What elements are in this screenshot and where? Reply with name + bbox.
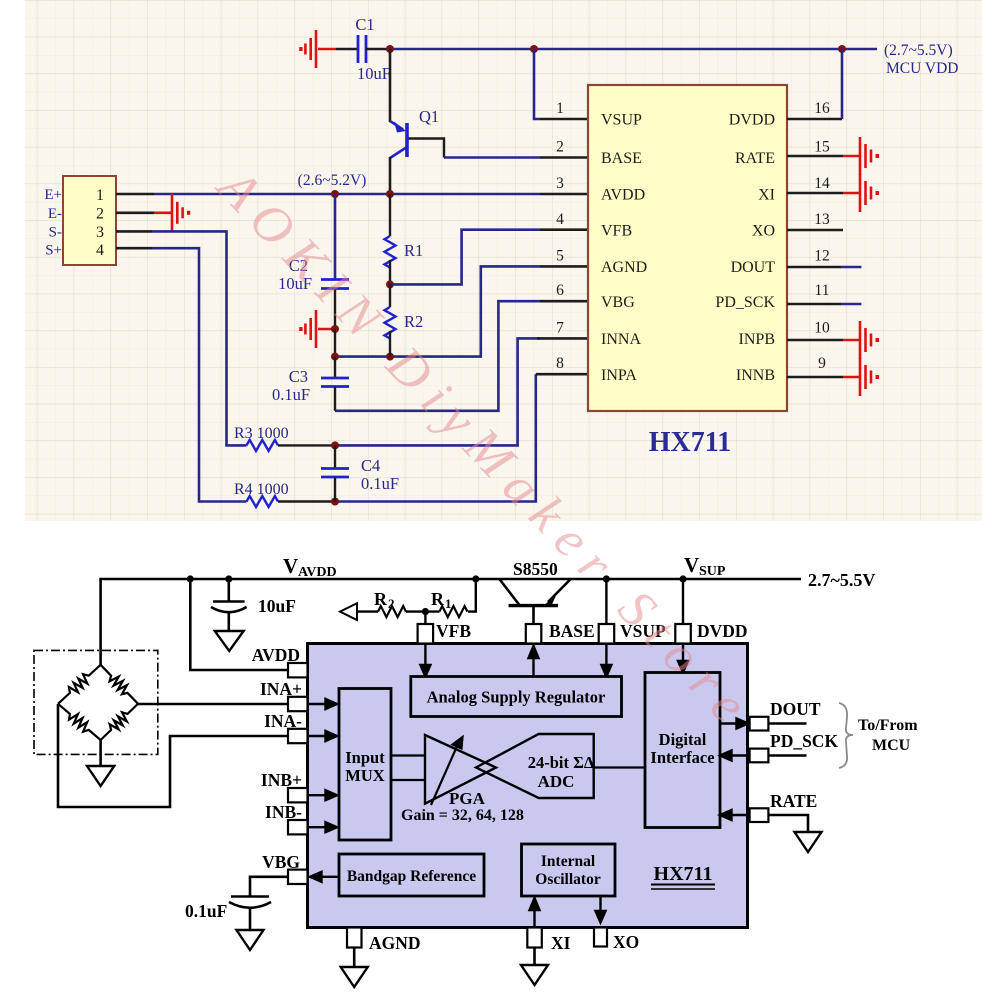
svg-text:HX711: HX711 [654, 863, 713, 885]
schematic grid background [25, 0, 982, 521]
load cell dashed box [34, 650, 158, 754]
arrow BASE from ASR [529, 646, 539, 677]
wire MUX to PGA upper [391, 754, 425, 756]
transistor S8550 [499, 579, 570, 625]
connector pin3 stub [116, 230, 152, 233]
svg-text:VFB: VFB [436, 621, 471, 641]
svg-text:Input: Input [345, 748, 385, 767]
wire V_AVDD rail [99, 578, 801, 581]
junction rail VSUP [603, 575, 610, 582]
svg-text:INB-: INB- [265, 802, 302, 822]
arrow RATE in [720, 810, 748, 820]
wire VSUP drop [605, 579, 607, 625]
capacitor C1 [358, 35, 366, 63]
IC right pin numbers [814, 100, 830, 372]
resistor R1 bottom [439, 606, 467, 617]
arrow INA- into MUX [308, 731, 338, 741]
pin 15 stub [787, 155, 843, 158]
svg-text:7: 7 [556, 320, 564, 337]
svg-text:R: R [374, 589, 388, 609]
svg-text:PD_SCK: PD_SCK [715, 294, 775, 311]
junction ground node [331, 325, 339, 333]
PGA triangle [425, 735, 496, 804]
arrow INA+ into MUX [308, 699, 338, 709]
connector pin4 stub [116, 247, 152, 250]
svg-text:Oscillator: Oscillator [535, 871, 601, 888]
ADC pentagon [476, 734, 594, 798]
bridge arm bottom-left [58, 704, 101, 740]
pin 7 stub [537, 337, 588, 340]
svg-text:AVDD: AVDD [601, 187, 645, 204]
pin 5 stub [540, 265, 588, 268]
junction AGND row left [331, 353, 339, 361]
svg-text:SUP: SUP [699, 564, 726, 579]
svg-text:3: 3 [96, 224, 104, 241]
svg-text:R1: R1 [404, 241, 423, 260]
svg-text:24-bit ΣΔ: 24-bit ΣΔ [528, 753, 595, 772]
svg-text:DVDD: DVDD [729, 112, 775, 129]
wire R1 to rail [468, 579, 476, 612]
label V_SUP [684, 553, 726, 579]
ground at XI [843, 174, 879, 212]
pin box PD_SCK [750, 749, 769, 763]
pin box DVDD [675, 624, 691, 644]
wire PD_SCK right [768, 754, 806, 757]
svg-text:MCU VDD: MCU VDD [886, 60, 959, 77]
wire AVDD net [154, 193, 540, 196]
ground at C1 [299, 30, 336, 68]
capacitor 0.1uF bottom [229, 897, 271, 931]
wire PD_SCK [842, 303, 862, 306]
svg-text:C4: C4 [361, 456, 380, 475]
wire R2 to R1 [406, 610, 439, 612]
svg-text:10uF: 10uF [258, 596, 296, 616]
svg-text:S-: S- [49, 225, 62, 241]
svg-text:C1: C1 [355, 15, 374, 34]
box Digital Interface [645, 673, 720, 828]
junction AGND row R2 [386, 353, 394, 361]
svg-text:6: 6 [556, 282, 564, 299]
wire S- to R3 [152, 231, 247, 445]
pin 4 stub [540, 228, 588, 231]
svg-text:AVDD: AVDD [252, 645, 300, 665]
svg-text:15: 15 [814, 139, 830, 156]
svg-text:BASE: BASE [549, 621, 595, 641]
svg-text:2.7~5.5V: 2.7~5.5V [808, 570, 875, 590]
arrow INB+ into MUX [308, 790, 338, 800]
ground of AGND [341, 967, 368, 987]
svg-text:ADC: ADC [538, 772, 575, 791]
pin box RATE [750, 808, 769, 822]
pin 12 stub [787, 266, 842, 269]
box Internal Oscillator [522, 844, 616, 896]
pin 11 stub [787, 303, 842, 306]
capacitor 10uF [211, 579, 247, 631]
wire Q1 emitter from rail [389, 49, 392, 122]
junction R3 C4 [331, 441, 339, 449]
arrow INB- into MUX [308, 822, 338, 832]
connector J1 [63, 176, 116, 265]
wire base net to pin 2 [444, 156, 540, 159]
svg-text:INA-: INA- [264, 711, 302, 731]
svg-text:1: 1 [556, 100, 564, 117]
wire R4 to junction [278, 500, 335, 502]
svg-text:INNB: INNB [736, 367, 775, 384]
wire DVDD to rail [841, 49, 844, 119]
pin 8 stub [536, 373, 588, 376]
wire S+ to R4 [152, 248, 247, 501]
ground at E- [154, 194, 190, 232]
svg-text:XO: XO [613, 932, 639, 952]
wire bridge excitation [99, 579, 102, 666]
arrow XI into oscillator [530, 898, 540, 928]
svg-text:E-: E- [48, 206, 62, 222]
svg-text:13: 13 [814, 211, 830, 228]
pin 3 stub AVDD [540, 193, 588, 196]
capacitor C2 [321, 194, 349, 329]
svg-text:Internal: Internal [541, 853, 596, 870]
svg-text:INB+: INB+ [261, 770, 302, 790]
labels E+ E- S- S+ [44, 187, 62, 259]
svg-text:DOUT: DOUT [770, 699, 821, 719]
wire ADC to DI [594, 766, 645, 768]
svg-text:1: 1 [445, 596, 452, 611]
junction rail DVDD [679, 575, 686, 582]
svg-text:AGND: AGND [369, 933, 421, 953]
wire AGND down [353, 948, 356, 968]
wire DOUT right [768, 722, 806, 725]
wire R4 node to INPA [335, 374, 536, 501]
pin box VFB [418, 624, 434, 644]
resistor R2 [385, 284, 396, 356]
svg-text:Digital: Digital [659, 730, 707, 749]
svg-text:Interface: Interface [650, 748, 714, 767]
svg-text:3: 3 [556, 175, 564, 192]
svg-text:10uF: 10uF [357, 64, 391, 83]
resistor R4 [247, 496, 278, 507]
pin box XO [594, 928, 607, 947]
bridge arm top-right [101, 665, 138, 704]
resistor R2 bottom [378, 606, 406, 617]
junction AVDD R1 [386, 190, 394, 198]
capacitor C4 [321, 445, 349, 501]
chip body HX711 [308, 644, 748, 928]
svg-text:RATE: RATE [735, 150, 775, 167]
label Digital Interface [650, 730, 714, 767]
junction R4 C4 [331, 498, 339, 506]
pin box BASE [526, 624, 542, 644]
pin 10 stub [787, 339, 843, 342]
wire DOUT [842, 266, 862, 269]
junction rail 10uF [225, 575, 232, 582]
connector pin2 stub [116, 212, 154, 215]
svg-text:E+: E+ [44, 187, 62, 203]
svg-text:Gain = 32, 64, 128: Gain = 32, 64, 128 [401, 807, 524, 824]
junction at C1 out [386, 45, 394, 53]
pin 9 stub [787, 376, 843, 379]
svg-text:1: 1 [96, 187, 104, 204]
ground of 0.1uF [237, 930, 264, 950]
svg-text:BASE: BASE [601, 150, 642, 167]
svg-text:14: 14 [814, 175, 830, 192]
svg-text:PGA: PGA [449, 789, 486, 808]
svg-text:R3 1000: R3 1000 [234, 425, 289, 442]
label HX711 bottom [651, 863, 715, 889]
arrow DOUT out [720, 719, 748, 729]
ground of XI [521, 965, 548, 985]
ground at C2-C3 node [299, 310, 335, 348]
svg-text:4: 4 [556, 211, 564, 228]
pin box VSUP [599, 624, 615, 644]
svg-text:XI: XI [551, 933, 571, 953]
ground of 10uF [215, 631, 244, 651]
wire RATE to ground [768, 815, 808, 832]
wire AVDD pin [190, 579, 288, 670]
pin box DOUT [750, 717, 769, 731]
svg-text:INPB: INPB [739, 331, 775, 348]
wire INA- [58, 704, 288, 807]
ground of bridge [87, 766, 114, 786]
svg-text:XO: XO [752, 223, 775, 240]
svg-text:VFB: VFB [601, 223, 632, 240]
wire VBG to cap [250, 877, 288, 896]
wire bridge bottom to ground [99, 740, 102, 766]
IC right pin names [715, 112, 775, 385]
bridge arm bottom-right [101, 704, 138, 740]
svg-text:8: 8 [556, 355, 564, 372]
wire AGND row [335, 266, 540, 356]
box Bandgap Reference [339, 854, 484, 896]
IC U1 HX711 [588, 85, 787, 411]
ground at RATE [843, 137, 879, 175]
svg-text:MUX: MUX [345, 766, 384, 785]
svg-text:16: 16 [814, 100, 830, 117]
svg-text:0.1uF: 0.1uF [272, 385, 310, 404]
svg-text:R: R [431, 589, 445, 609]
svg-text:R4 1000: R4 1000 [234, 481, 289, 498]
resistor R3 [247, 440, 278, 451]
transistor Q1 [390, 121, 407, 158]
pin box INB+ [288, 788, 308, 802]
pin 6 stub [540, 300, 588, 303]
junction AVDD C2 [331, 190, 339, 198]
svg-text:INPA: INPA [601, 367, 637, 384]
wire INA+ [138, 703, 288, 706]
arrow to AVDD open [340, 603, 357, 620]
arrow XO from oscillator [596, 896, 606, 923]
box Input MUX [339, 689, 391, 841]
ground at INPB [843, 321, 879, 359]
pin box INA- [288, 729, 308, 743]
pin 2 stub [540, 156, 588, 159]
wire MUX to PGA lower [391, 779, 425, 781]
svg-text:Bandgap Reference: Bandgap Reference [347, 868, 476, 885]
pin box AGND [347, 928, 362, 948]
pin 1 stub [540, 118, 588, 121]
pin box INB- [288, 820, 308, 834]
junction VSUP drop [530, 45, 538, 53]
label R2 bottom [374, 589, 395, 611]
capacitor C3 [321, 357, 349, 411]
brace To/From MCU [839, 703, 853, 768]
svg-text:VBG: VBG [262, 852, 300, 872]
arrow DVDD into chip [678, 644, 688, 673]
connector pin numbers [96, 187, 104, 259]
wire ground node to AGND row [334, 329, 336, 357]
wire ground to C1 [336, 48, 357, 50]
svg-text:VSUP: VSUP [601, 112, 642, 129]
label R1 bottom [431, 589, 452, 611]
pin box VBG [288, 870, 308, 884]
wire Q1 collector to AVDD [389, 157, 392, 194]
arrow VSUP into ASR [601, 644, 611, 677]
IC left pin names [601, 112, 647, 385]
junction rail R1 [472, 575, 479, 582]
svg-text:10: 10 [814, 320, 830, 337]
svg-text:MCU: MCU [872, 737, 911, 754]
bridge arm top-left [58, 665, 101, 704]
svg-text:(2.6~5.2V): (2.6~5.2V) [298, 172, 367, 189]
svg-text:AGND: AGND [601, 259, 647, 276]
label Input MUX [345, 748, 385, 785]
svg-text:(2.7~5.5V): (2.7~5.5V) [884, 42, 953, 59]
wire VSUP pin 1 [534, 49, 540, 119]
svg-text:11: 11 [815, 282, 830, 299]
svg-text:4: 4 [96, 242, 104, 259]
svg-text:PD_SCK: PD_SCK [770, 731, 838, 751]
label V_AVDD [283, 554, 337, 580]
pin 14 stub [787, 192, 843, 195]
svg-text:V: V [684, 553, 699, 577]
box Analog Supply Regulator [411, 677, 622, 717]
wire MCU VDD rail [390, 48, 877, 51]
svg-text:0.1uF: 0.1uF [361, 474, 399, 493]
wire Q1 base [409, 139, 445, 158]
arrow PD_SCK in [720, 751, 748, 761]
wire VFB drop [424, 612, 426, 625]
label Internal Oscillator [535, 853, 601, 888]
svg-text:2: 2 [96, 206, 104, 223]
pin box INA+ [288, 697, 308, 711]
svg-text:To/From: To/From [858, 717, 918, 734]
pin box AVDD left [288, 663, 308, 677]
svg-text:5: 5 [556, 248, 564, 265]
pin 16 stub [787, 118, 842, 121]
junction DVDD drop [838, 45, 846, 53]
svg-text:XI: XI [758, 187, 775, 204]
svg-text:12: 12 [814, 248, 830, 265]
svg-text:AVDD: AVDD [298, 565, 337, 580]
svg-text:S8550: S8550 [513, 559, 558, 579]
wire arrow to R2 [357, 610, 378, 612]
wire DVDD drop [682, 579, 684, 625]
junction rail AVDD [187, 575, 194, 582]
wire VFB net [390, 230, 540, 285]
wire XI down [533, 948, 536, 966]
svg-text:INNA: INNA [601, 331, 641, 348]
svg-text:Q1: Q1 [419, 107, 439, 126]
svg-text:S+: S+ [45, 243, 62, 259]
arrow VFB into ASR [420, 644, 430, 677]
pin1 stub of connector [116, 193, 154, 196]
svg-text:VBG: VBG [601, 294, 635, 311]
pin box XI [527, 928, 542, 948]
svg-text:2: 2 [556, 139, 564, 156]
svg-text:Analog Supply Regulator: Analog Supply Regulator [427, 688, 606, 707]
arrow VBG out of Bandgap [310, 872, 339, 882]
svg-text:RATE: RATE [770, 791, 817, 811]
wire R3 node to INNA [335, 338, 540, 445]
resistor R1 [385, 194, 396, 284]
IC left pin numbers [556, 100, 564, 372]
pin 13 stub [787, 229, 843, 232]
junction R1 R2 VFB [386, 280, 394, 288]
wire R3 to junction [278, 444, 335, 446]
ground at INNB [843, 358, 879, 396]
svg-text:2: 2 [388, 596, 395, 611]
svg-text:0.1uF: 0.1uF [185, 901, 227, 921]
wire C1 to junction [366, 48, 390, 50]
svg-text:DOUT: DOUT [731, 259, 776, 276]
PGA gain arrow [431, 737, 463, 805]
svg-text:HX711: HX711 [649, 427, 731, 458]
svg-text:V: V [283, 554, 298, 578]
svg-text:9: 9 [818, 355, 826, 372]
label 24-bit ADC [528, 753, 595, 791]
junction VFB node [422, 608, 429, 615]
wire C3 to VBG [335, 301, 540, 411]
ground of RATE [795, 832, 822, 852]
svg-text:C3: C3 [289, 367, 308, 386]
svg-text:INA+: INA+ [260, 679, 302, 699]
